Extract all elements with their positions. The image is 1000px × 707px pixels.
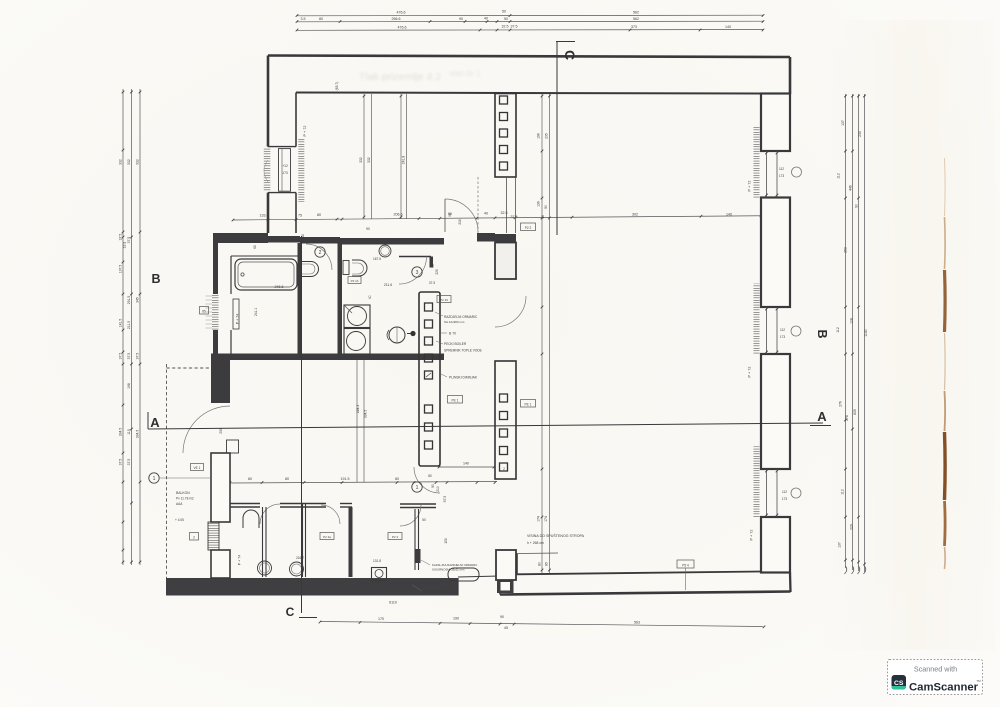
shaft squares (425, 303, 433, 311)
door arc lower room 1 (260, 504, 280, 524)
bottom wall left block solid band (166, 578, 458, 596)
svg-text:VISINA DO SPUŠTENOG STROPA: VISINA DO SPUŠTENOG STROPA (527, 533, 585, 538)
svg-text:45: 45 (504, 626, 508, 630)
svg-text:C: C (286, 605, 295, 619)
svg-text:37.5: 37.5 (136, 353, 140, 360)
svg-text:229: 229 (850, 524, 854, 530)
svg-text:332: 332 (119, 159, 123, 165)
svg-text:37.5: 37.5 (127, 237, 131, 244)
svg-text:50: 50 (502, 10, 506, 14)
north wall wc band (340, 238, 444, 245)
spine door arc to big room (495, 296, 526, 327)
right window 2 sill hatch (754, 284, 760, 355)
bottom dimension chain (320, 622, 764, 627)
top dimension chain lines (297, 14, 763, 17)
right window 3 handle (791, 488, 801, 498)
svg-text:2: 2 (503, 467, 505, 471)
svg-text:BALKON: BALKON (176, 491, 190, 495)
hall partition horizontal (230, 503, 260, 505)
svg-text:235: 235 (545, 133, 549, 139)
svg-text:Pv 11.78 m2: Pv 11.78 m2 (176, 497, 194, 501)
svg-text:VE 1: VE 1 (194, 466, 201, 470)
svg-text:256.6: 256.6 (392, 17, 401, 21)
bottom wall right block (517, 572, 761, 575)
svg-text:45: 45 (541, 215, 545, 219)
left outer wall upper block (267, 56, 270, 147)
right window 3 sill hatch (754, 447, 760, 518)
faint pencil smudge in top band (359, 69, 481, 83)
svg-text:P2 1b: P2 1b (351, 279, 359, 283)
entrance recess (457, 578, 459, 596)
svg-text:(65.7): (65.7) (335, 82, 339, 91)
bathroom1 north edge (231, 255, 300, 257)
spine bottom stub (496, 550, 516, 580)
svg-text:80: 80 (319, 17, 323, 21)
svg-text:P + 72: P + 72 (750, 529, 754, 540)
label box P2 2 (521, 223, 536, 231)
top room door arc (445, 199, 478, 232)
svg-text:332: 332 (136, 159, 140, 165)
svg-text:90: 90 (448, 213, 452, 217)
outer top wall (268, 56, 790, 58)
svg-text:334.5: 334.5 (119, 428, 123, 437)
svg-text:200: 200 (219, 428, 223, 434)
svg-text:3.5: 3.5 (301, 17, 306, 21)
svg-text:80: 80 (395, 477, 399, 481)
svg-text:Scanned with: Scanned with (914, 665, 957, 674)
svg-text:112: 112 (782, 490, 787, 494)
svg-text:173: 173 (780, 335, 786, 339)
svg-text:P2 3: P2 3 (392, 535, 399, 539)
svg-text:211.5: 211.5 (127, 321, 131, 329)
right wall block R1 (761, 94, 790, 152)
door arc lower room 2 (321, 505, 340, 524)
svg-text:241.1: 241.1 (254, 308, 258, 316)
svg-text:141.5: 141.5 (119, 319, 123, 328)
wc sink (379, 245, 391, 257)
svg-text:210: 210 (436, 486, 440, 492)
svg-text:137.5: 137.5 (119, 265, 123, 274)
balcony dashed edge (166, 364, 168, 578)
svg-text:839: 839 (853, 409, 857, 415)
svg-text:170: 170 (378, 617, 384, 621)
svg-text:131.8: 131.8 (373, 559, 381, 563)
svg-text:RAZDJELNI ORMARIC: RAZDJELNI ORMARIC (444, 315, 478, 319)
svg-text:216.7: 216.7 (296, 556, 304, 560)
svg-text:112: 112 (841, 489, 845, 495)
label box PE1 right (521, 400, 536, 408)
svg-text:80: 80 (428, 474, 432, 478)
partition stub x416 (414, 509, 416, 570)
shower fixture (243, 510, 259, 528)
svg-text:278: 278 (845, 415, 849, 421)
svg-text:B: B (151, 272, 160, 286)
spine thin lines below top shaft (506, 177, 508, 233)
svg-text:332: 332 (127, 159, 131, 165)
mid-left window label box (200, 307, 209, 315)
right window 3 glazing (766, 469, 768, 517)
svg-text:446: 446 (849, 185, 853, 191)
upper-left window swing arc (264, 160, 268, 182)
corridor door arc bottom (414, 467, 440, 493)
svg-text:B: B (815, 329, 829, 338)
right window 1 sill hatch (754, 127, 760, 198)
svg-text:210: 210 (458, 219, 462, 225)
svg-text:196: 196 (537, 133, 541, 139)
svg-text:476.6: 476.6 (397, 11, 406, 15)
svg-text:373: 373 (631, 25, 637, 29)
svg-text:+ 4.05: + 4.05 (175, 518, 184, 522)
svg-text:CamScanner: CamScanner (909, 682, 979, 694)
svg-text:B 70: B 70 (449, 332, 456, 336)
svg-text:CS: CS (894, 680, 904, 687)
gas valve symbol (410, 331, 415, 336)
svg-text:50: 50 (504, 17, 508, 21)
bathroom2 toilet (302, 262, 319, 277)
svg-text:345: 345 (136, 297, 140, 303)
svg-text:3: 3 (416, 270, 419, 276)
left outer wall mid lower (213, 330, 218, 364)
svg-text:37.5: 37.5 (511, 25, 518, 29)
svg-text:80: 80 (248, 477, 252, 481)
svg-text:37.5: 37.5 (511, 215, 518, 219)
section line C lower (301, 236, 303, 613)
interior vertical dim lines hall (356, 359, 358, 482)
label box P2 16 (437, 296, 451, 303)
svg-text:P + 72: P + 72 (748, 366, 752, 377)
svg-text:332: 332 (367, 157, 371, 163)
right window 2 glazing (766, 307, 768, 354)
svg-text:P5 4: P5 4 (682, 563, 689, 567)
svg-text:85: 85 (545, 562, 549, 566)
svg-text:37.5: 37.5 (429, 281, 435, 285)
svg-text:136: 136 (537, 201, 541, 207)
north wall bathroom2 (300, 237, 340, 244)
label box P5 4 (677, 560, 694, 568)
lower-left block west wall upper (211, 358, 230, 403)
balcony door opening (227, 440, 239, 453)
svg-text:37.5: 37.5 (119, 234, 123, 241)
svg-text:198: 198 (127, 383, 131, 389)
middle horizontal dimension chain y219 (233, 216, 790, 221)
interior vertical dim lines top-left room (363, 94, 365, 219)
mid-left window hatch (212, 295, 219, 331)
svg-text:211.6: 211.6 (384, 283, 392, 287)
south wall of mid section band (211, 354, 444, 361)
spine shaft 2 (495, 361, 516, 479)
section line C upper (556, 42, 558, 235)
bottom wall step line (517, 552, 558, 555)
svg-text:476.6: 476.6 (398, 26, 407, 30)
svg-text:253: 253 (844, 247, 848, 253)
svg-text:85: 85 (202, 309, 206, 313)
svg-text:1140: 1140 (864, 329, 868, 336)
balcony window hatch (208, 522, 219, 550)
bathroom2 door arc (306, 244, 332, 270)
left outer wall mid section (213, 243, 218, 294)
svg-text:P + 74: P + 74 (236, 314, 240, 324)
svg-text:220: 220 (435, 269, 439, 275)
svg-text:137: 137 (838, 542, 842, 548)
svg-text:90: 90 (366, 227, 370, 231)
north wall bathroom1 (268, 236, 300, 243)
spine block (495, 243, 516, 280)
washbasin 2 (290, 562, 304, 576)
wc door arc (399, 257, 427, 285)
orange scan streak (944, 158, 947, 216)
bottom wall right step (500, 553, 517, 555)
wall bathroom1/2 (298, 243, 303, 358)
svg-text:291.5: 291.5 (127, 296, 131, 305)
label box P2 3 (388, 533, 402, 540)
svg-text:244.3: 244.3 (356, 405, 360, 414)
svg-text:40: 40 (484, 17, 488, 21)
corridor dimension y467 (439, 466, 494, 468)
svg-text:37.5: 37.5 (127, 459, 131, 466)
balcony window label box (190, 533, 199, 541)
svg-text:334.5: 334.5 (364, 410, 368, 419)
right dimension chain lines (845, 94, 847, 568)
wall bathroom2/wc (338, 243, 343, 358)
shaft column lower (419, 292, 440, 466)
svg-text:PE 1: PE 1 (452, 398, 459, 402)
right wall block R2 (761, 198, 790, 308)
svg-text:90: 90 (459, 17, 463, 21)
svg-text:2: 2 (193, 535, 195, 539)
svg-text:A: A (150, 415, 160, 430)
svg-text:302: 302 (632, 213, 638, 217)
inner top wall (296, 93, 761, 94)
svg-text:32.5: 32.5 (502, 25, 509, 29)
camscanner badge (888, 660, 983, 695)
spine top shaft (495, 94, 516, 178)
svg-text:40: 40 (484, 212, 488, 216)
upper-left window frame (279, 149, 291, 192)
svg-text:2: 2 (319, 250, 322, 256)
wc toilet (343, 261, 349, 275)
svg-text:150: 150 (444, 538, 448, 544)
svg-text:KAZALJKA RAZDJELNI ORMARIC: KAZALJKA RAZDJELNI ORMARIC (432, 563, 477, 567)
svg-text:P + 72: P + 72 (303, 125, 307, 136)
svg-text:P + 74: P + 74 (238, 555, 242, 565)
svg-text:174: 174 (537, 516, 541, 522)
svg-text:h + 268 cm: h + 268 cm (527, 541, 544, 545)
svg-text:235: 235 (858, 131, 862, 137)
svg-text:334.5: 334.5 (136, 430, 140, 439)
right outer wall bottom segment (789, 573, 792, 593)
svg-text:AAA: AAA (176, 502, 183, 506)
svg-text:TM: TM (976, 679, 981, 683)
svg-text:80: 80 (317, 213, 321, 217)
svg-text:50: 50 (422, 518, 426, 522)
bathtub (235, 259, 297, 290)
hall horizontal dimension chain y482 (230, 482, 497, 484)
svg-text:PLINSKI DIMNJAK: PLINSKI DIMNJAK (449, 376, 478, 380)
svg-text:173: 173 (779, 174, 785, 178)
svg-text:140: 140 (463, 462, 469, 466)
right wall block R3 (761, 354, 790, 469)
partition vertical x302 lower (302, 503, 304, 577)
parapet hatch inside left (298, 139, 304, 202)
svg-text:140: 140 (725, 25, 731, 29)
interior vertical dim pair big room (541, 94, 543, 573)
right dimension chain bottom hooks (845, 566, 847, 574)
svg-text:6110: 6110 (389, 601, 397, 605)
svg-text:245.6: 245.6 (275, 285, 284, 289)
washbasin 1 (258, 561, 272, 575)
lower-left block west wall mid (211, 453, 230, 522)
svg-text:115: 115 (127, 429, 131, 435)
right wall block R4 (761, 517, 790, 573)
wc door stub wall (399, 256, 431, 258)
svg-text:140: 140 (726, 213, 732, 217)
partition vertical x264 (262, 507, 264, 577)
label box PE1 left (448, 396, 463, 404)
svg-text:Tlak prizemlje 4.2: Tlak prizemlje 4.2 (359, 71, 441, 83)
svg-text:90: 90 (544, 205, 548, 209)
svg-text:PE 1: PE 1 (525, 402, 532, 406)
svg-text:SIGURNOSNI 35x11 mm: SIGURNOSNI 35x11 mm (432, 568, 465, 572)
svg-text:90: 90 (431, 264, 435, 268)
right window 1 handle (792, 167, 802, 177)
partition vertical x350 (349, 507, 353, 577)
svg-text:276: 276 (839, 401, 843, 407)
svg-text:563: 563 (634, 621, 640, 625)
svg-text:80: 80 (538, 562, 542, 566)
label box P2 1b (348, 277, 361, 284)
upper-left window hatch (264, 147, 271, 191)
entrance pillar (497, 580, 514, 594)
left dimension chain lines (122, 89, 124, 565)
mid-left window outside ticks (206, 295, 213, 297)
spine top stub (495, 234, 516, 243)
right window 2 handle (791, 326, 801, 336)
svg-text:80: 80 (285, 477, 289, 481)
wc3 toilet (389, 327, 405, 343)
svg-text:SA 12x380 mm: SA 12x380 mm (444, 320, 465, 324)
door arc lower room 3 (400, 505, 421, 526)
svg-text:37.5: 37.5 (127, 353, 131, 360)
svg-text:1: 1 (416, 485, 419, 491)
corridor dashed line (477, 177, 479, 234)
svg-text:37.5: 37.5 (119, 459, 123, 466)
left inner wall upper block (295, 93, 297, 147)
svg-text:112: 112 (779, 167, 784, 171)
svg-text:137: 137 (841, 120, 845, 126)
svg-text:241.8: 241.8 (402, 156, 406, 165)
stub wall left of spine (477, 233, 495, 242)
svg-text:332: 332 (359, 157, 363, 163)
small tub bottom (448, 568, 479, 581)
mid-left window frame (233, 299, 239, 329)
washing machine 1 (344, 305, 370, 328)
svg-text:112: 112 (836, 327, 840, 333)
svg-text:190: 190 (453, 617, 459, 621)
gas meter (372, 568, 387, 581)
thick wall bar step (213, 233, 268, 243)
svg-text:C: C (562, 50, 578, 60)
svg-text:562: 562 (633, 11, 639, 15)
svg-text:220: 220 (306, 237, 310, 243)
svg-text:173: 173 (282, 171, 288, 175)
svg-text:37.5: 37.5 (119, 353, 123, 360)
svg-text:stan br 1: stan br 1 (449, 69, 481, 78)
svg-text:P2 2: P2 2 (525, 226, 532, 230)
right outer wall top segment (789, 57, 792, 94)
leader circled 1 left (149, 473, 159, 483)
svg-text:+12: +12 (282, 164, 288, 168)
svg-text:PLINSKO BROJILO: PLINSKO BROJILO (424, 590, 452, 594)
svg-text:112: 112 (837, 173, 841, 179)
svg-text:57.5: 57.5 (443, 496, 447, 503)
svg-text:191.5: 191.5 (341, 477, 350, 481)
svg-text:90: 90 (431, 484, 435, 488)
section line A-A (148, 423, 823, 429)
svg-text:75: 75 (298, 214, 302, 218)
svg-text:108: 108 (850, 318, 854, 324)
svg-text:A: A (817, 409, 827, 424)
svg-text:PECKI BOILER: PECKI BOILER (444, 342, 467, 346)
svg-text:173: 173 (782, 497, 788, 501)
label box P2 3a (320, 533, 334, 540)
svg-text:P2 3a: P2 3a (323, 535, 331, 539)
window sills upper-left window (268, 146, 296, 148)
svg-text:562: 562 (633, 17, 639, 21)
svg-text:167.5: 167.5 (373, 257, 381, 261)
svg-text:SPREMNIK TOPLE VODE: SPREMNIK TOPLE VODE (444, 349, 482, 353)
svg-text:90: 90 (855, 204, 859, 208)
svg-text:P + 72: P + 72 (748, 180, 752, 191)
washing machine 2 (344, 329, 370, 355)
svg-text:1: 1 (153, 476, 156, 482)
lower-left block west wall lower (211, 550, 230, 578)
svg-text:60: 60 (253, 245, 257, 249)
svg-text:112: 112 (780, 328, 785, 332)
svg-text:174: 174 (544, 516, 548, 522)
svg-text:P2 16: P2 16 (440, 298, 448, 302)
label VE1 (191, 464, 204, 471)
svg-text:90: 90 (500, 615, 504, 619)
right window 1 glazing (766, 151, 768, 198)
